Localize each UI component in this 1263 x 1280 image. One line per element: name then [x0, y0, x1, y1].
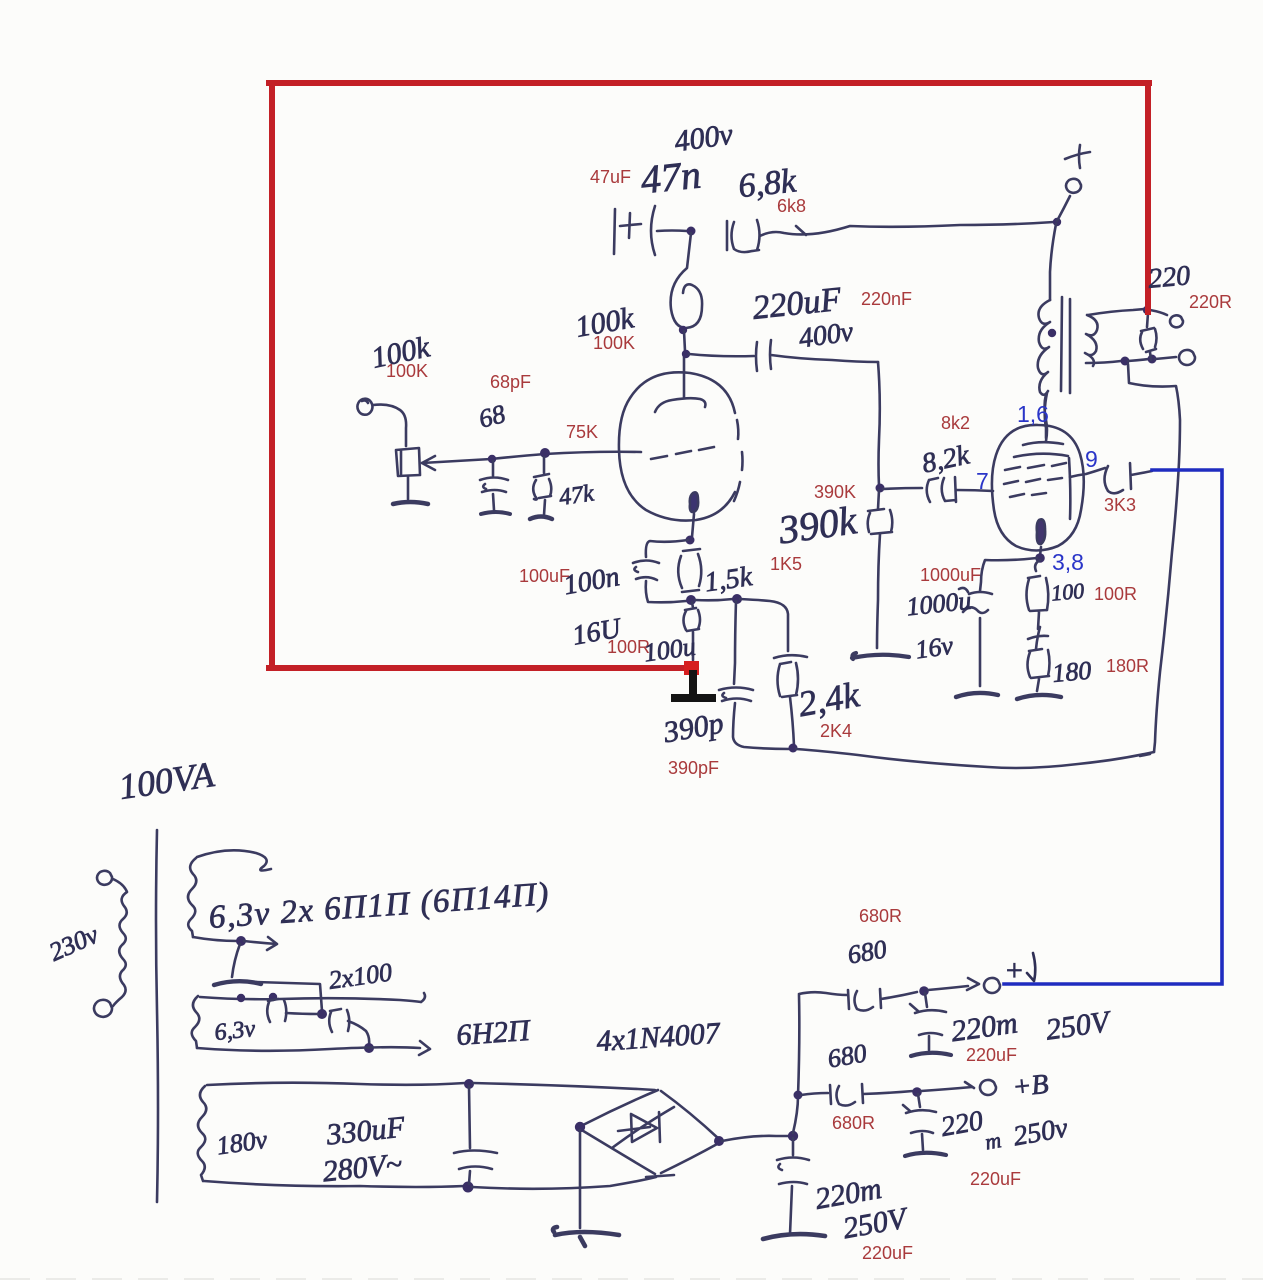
heater no2 bottom wire	[197, 1041, 430, 1055]
nodes heater2 top	[237, 994, 245, 1002]
red annotation frame right	[1145, 83, 1151, 312]
svg-text:100R: 100R	[1094, 584, 1137, 604]
resistor 100R humdinger b	[329, 1009, 369, 1045]
V2 beam plate	[1069, 458, 1070, 519]
node cathode bottom	[686, 595, 696, 605]
node anode resistor bottom	[679, 326, 687, 334]
wire bridge to B+ node	[722, 1136, 790, 1141]
wire to 390p node	[695, 599, 733, 600]
scan edge artifact bottom	[0, 1278, 1263, 1280]
ground 220uF no1	[911, 1053, 951, 1056]
bridge diode symbol	[612, 1107, 674, 1148]
HT winding 180v	[198, 1086, 207, 1181]
47uF cap C1	[614, 206, 687, 255]
svg-text:2K4: 2K4	[820, 721, 852, 741]
svg-text:180: 180	[1051, 656, 1092, 688]
V2 pin9 lead	[1070, 468, 1105, 477]
resistor 8k2	[883, 477, 956, 502]
speaker terminal top	[1170, 315, 1183, 327]
svg-text:9: 9	[1085, 446, 1098, 472]
V2 cathode blob	[1037, 519, 1045, 544]
svg-text:220uF: 220uF	[862, 1243, 913, 1263]
potentiometer VR1 100K	[396, 448, 420, 476]
resistor 680R no1	[848, 989, 881, 1011]
node A (wiper/68p)	[488, 455, 496, 463]
node 390p	[732, 594, 742, 604]
red annotation frame left	[269, 83, 275, 668]
wire node to 2K4	[740, 599, 788, 651]
wire cathode to 1000uF	[980, 558, 1037, 591]
resistor 100R V1	[684, 602, 701, 660]
wire down to grid node V2	[878, 362, 880, 486]
svg-text:+B: +B	[1011, 1069, 1050, 1104]
resistor 100k anode load	[671, 233, 702, 328]
node B+ bottom	[788, 1131, 798, 1141]
pot ground	[407, 477, 410, 499]
V2 plate bars	[1014, 442, 1068, 457]
red annotation frame bottom	[269, 665, 687, 671]
capacitor 220uF no2	[903, 1094, 936, 1150]
mains primary terminal bottom	[94, 1000, 112, 1017]
V1 anode plate	[655, 398, 705, 412]
wire wiper to grid V1	[422, 452, 641, 463]
capacitor 330nF	[454, 1086, 497, 1184]
wire C2 to 390K node	[771, 355, 878, 362]
OT secondary winding	[1085, 315, 1098, 366]
resistor 3K3	[1105, 463, 1153, 493]
V2 anode entry	[1045, 394, 1048, 441]
HT top wire	[207, 1083, 465, 1085]
ground 75K	[530, 517, 552, 520]
svg-text:100: 100	[1050, 578, 1085, 606]
node bridge left	[575, 1122, 585, 1132]
resistor 100R humdinger a	[267, 999, 286, 1022]
B+ rail up	[793, 995, 799, 1133]
svg-text:1000uF: 1000uF	[920, 565, 981, 585]
svg-text:390pF: 390pF	[668, 758, 719, 778]
svg-text:3,8: 3,8	[1052, 549, 1084, 575]
svg-text:220uF: 220uF	[966, 1045, 1017, 1065]
svg-text:680R: 680R	[859, 906, 902, 926]
ground 1000uF	[956, 693, 998, 697]
mains primary terminal top	[97, 871, 112, 885]
tick on rail	[796, 226, 806, 235]
node heater1	[236, 936, 246, 946]
wire rail to OT primary	[1050, 224, 1056, 300]
svg-text:6Н2П: 6Н2П	[455, 1014, 533, 1052]
HT bottom wire	[204, 1181, 464, 1187]
node sec bottom 1	[1121, 357, 1130, 366]
resistor 390K	[868, 509, 893, 534]
heater winding 6.3V no2	[192, 996, 200, 1048]
V2 grid dashes	[1004, 463, 1066, 497]
svg-text:47k: 47k	[557, 480, 595, 511]
resistor 75K grid leak	[533, 457, 551, 515]
capacitor 220uF no3	[777, 1138, 809, 1234]
+A terminal circle	[984, 978, 1000, 993]
capacitor 220uF no1	[910, 993, 946, 1050]
input jack terminal	[357, 399, 372, 415]
resistor 100R V2	[1027, 560, 1049, 629]
node V2 cathode	[1035, 553, 1045, 563]
wire 6k8 to + rail	[760, 222, 1054, 236]
+ HT terminal	[1057, 196, 1070, 221]
svg-text:1,6: 1,6	[1017, 401, 1049, 427]
hw arrow mark	[1027, 953, 1035, 981]
node B (grid R)	[540, 448, 550, 458]
node on B+ rail	[687, 227, 696, 236]
red annotation frame top	[269, 80, 1149, 86]
resistor 220R	[1140, 313, 1156, 360]
secondary bottom wire	[1086, 361, 1121, 363]
V1 cathode node	[686, 536, 695, 545]
svg-text:6,3v: 6,3v	[213, 1016, 256, 1046]
dash near feedback corner	[1140, 754, 1150, 756]
svg-text:6,8k: 6,8k	[737, 162, 799, 205]
resistor 2K4	[778, 662, 799, 746]
svg-text:220R: 220R	[1189, 292, 1232, 312]
resistor 180R	[1028, 649, 1050, 691]
svg-text:47n: 47n	[639, 151, 703, 202]
wire center tap to humdinger	[256, 982, 322, 1011]
mains primary winding 230v	[113, 879, 127, 1006]
node 220uF no2	[912, 1087, 922, 1097]
V1 cathode	[690, 492, 698, 512]
V1 grid dashes	[651, 447, 714, 459]
svg-text:68pF: 68pF	[490, 372, 531, 392]
node grid V2	[876, 484, 885, 493]
svg-text:220: 220	[1147, 260, 1192, 295]
capacitor 1000uF	[959, 588, 992, 686]
svg-text:1,5k: 1,5k	[703, 561, 755, 598]
wire input to pot	[373, 405, 406, 446]
feedback wire down	[1128, 364, 1180, 752]
wire 680R2 to +B terminal	[863, 1091, 913, 1094]
tube V2 6P1P envelope	[992, 425, 1084, 551]
heater winding 6.3V no1	[188, 858, 196, 937]
mains transformer core	[156, 830, 158, 1202]
wire rail to 680R no1	[799, 992, 847, 995]
node 220uF no1	[919, 986, 929, 996]
capacitor 390pF	[719, 601, 790, 749]
wire 390K to ground	[877, 534, 880, 648]
resistor 680R no2	[830, 1084, 863, 1106]
ground 180R	[1017, 695, 1061, 699]
OT core	[1061, 297, 1070, 393]
svg-text:680R: 680R	[832, 1113, 875, 1133]
wire node to 680R no2	[801, 1093, 828, 1095]
node bridge right	[714, 1136, 724, 1146]
svg-text:3K3: 3K3	[1104, 495, 1136, 515]
wire 680R1 to +A terminal	[881, 992, 917, 999]
tube V1 6N2P envelope	[619, 372, 735, 520]
resistor 1K5 cathode	[678, 549, 701, 592]
capacitor 68pF	[480, 461, 508, 510]
ground 220uF no2	[905, 1153, 946, 1156]
+ sign	[1065, 145, 1090, 168]
speaker terminal bottom	[1179, 350, 1195, 365]
svg-text:8k2: 8k2	[941, 413, 970, 433]
wire primary to V2 anode	[1045, 393, 1047, 438]
node humdinger center	[317, 1009, 327, 1019]
svg-text:+: +	[1004, 954, 1024, 987]
svg-text:1K5: 1K5	[770, 554, 802, 574]
arrow heater1	[244, 937, 277, 950]
node anode	[682, 350, 690, 358]
svg-text:16v: 16v	[914, 631, 956, 665]
wire cathode loop left	[646, 540, 688, 557]
secondary top wire	[1088, 309, 1145, 315]
2K4 top bar	[774, 655, 807, 658]
svg-text:7: 7	[976, 468, 989, 494]
svg-text:75K: 75K	[566, 422, 598, 442]
heater no1 bottom wire	[193, 937, 238, 941]
node sec top	[1143, 306, 1151, 314]
heater no1 top flourish	[197, 850, 271, 870]
node top rail right	[1053, 218, 1061, 226]
node 680R no2	[794, 1091, 803, 1100]
bridge ground drop	[579, 1130, 582, 1228]
node on primary	[1048, 329, 1056, 337]
node feedback join	[789, 744, 798, 753]
OT primary winding	[1038, 300, 1050, 395]
node 330n top	[464, 1079, 474, 1089]
wire 8k2 to pin 7	[956, 490, 993, 491]
capacitor 220nF C2	[756, 340, 771, 371]
red node square	[684, 661, 699, 675]
black ground stem	[689, 674, 697, 697]
svg-text:47uF: 47uF	[590, 167, 631, 187]
ground 220uF no3	[763, 1234, 825, 1239]
blue annotation line top	[1004, 470, 1222, 984]
tube V1 dashed side	[734, 420, 743, 501]
svg-text:220nF: 220nF	[861, 289, 912, 309]
heater no2 top wire	[200, 993, 425, 1002]
wire anode to C2	[689, 354, 754, 356]
V1 anode lead	[683, 352, 686, 397]
node sec bottom 2	[1148, 355, 1157, 364]
heater1 center tap ground	[232, 944, 240, 977]
wire C3 to bottom	[646, 581, 686, 602]
node heater2 bottom	[364, 1043, 374, 1053]
resistor 6k8	[727, 220, 760, 252]
feedback wire horizontal	[796, 749, 1154, 768]
black ground bar	[675, 694, 712, 702]
wiper arrow	[422, 456, 435, 470]
plus mark	[1028, 627, 1048, 649]
capacitor 100uF C3	[633, 561, 659, 581]
bridge rectifier diamond	[580, 1090, 719, 1177]
svg-text:220uF: 220uF	[970, 1169, 1021, 1189]
+B terminal circle	[980, 1080, 996, 1095]
ground 68pF	[481, 512, 510, 514]
node 330n bottom	[463, 1182, 474, 1193]
svg-text:180R: 180R	[1106, 656, 1149, 676]
ground 390K	[852, 653, 909, 659]
